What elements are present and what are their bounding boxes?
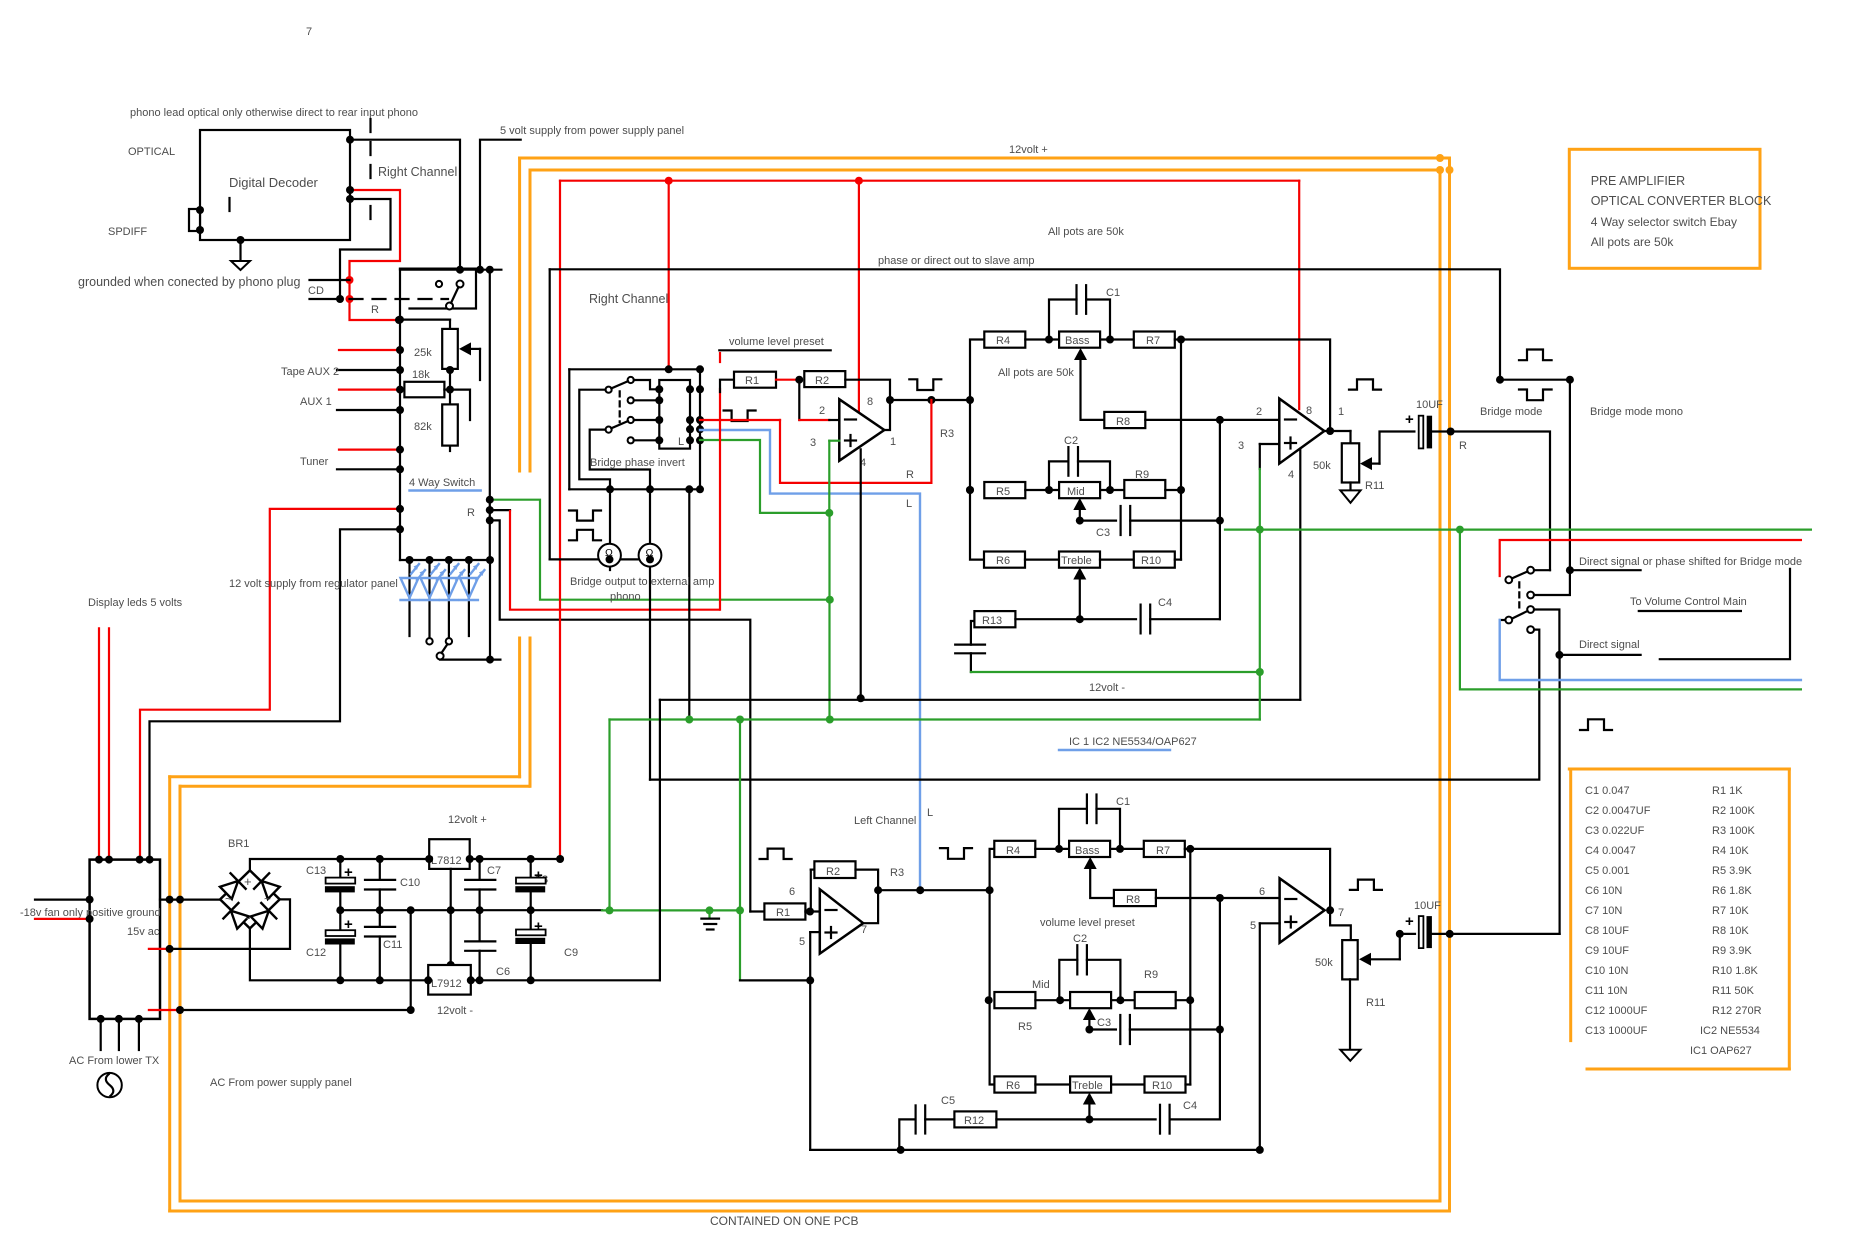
svg-text:15v ac: 15v ac (127, 926, 160, 938)
svg-text:5 volt supply from power suppl: 5 volt supply from power supply panel (500, 125, 684, 137)
svg-text:R11: R11 (1366, 997, 1385, 1009)
Treble wiper (left) (1088, 1098, 1090, 1119)
wire meter 2 drop (649, 489, 651, 779)
svg-text:R2 100K: R2 100K (1712, 805, 1755, 817)
R13 ground leg capacitor (971, 621, 975, 645)
svg-text:-: - (246, 910, 250, 925)
AC source symbol (97, 1073, 121, 1097)
contact F wire (634, 439, 660, 441)
gang dashed link (1518, 582, 1520, 609)
Mid wiper to C3 (1080, 504, 1116, 521)
tone input bus (970, 340, 984, 560)
svg-text:C8 10UF: C8 10UF (1585, 925, 1629, 937)
resistor R4 (984, 332, 1025, 348)
pot Bass (left) (1069, 841, 1110, 857)
svg-text:12volt -: 12volt - (437, 1005, 473, 1017)
svg-text:8: 8 (1306, 405, 1312, 417)
LED D4 (blue) (460, 564, 485, 600)
svg-text:50k: 50k (1315, 957, 1333, 969)
wire 15vac top to bridge (160, 898, 220, 900)
dashed CD link (350, 298, 449, 300)
pulse symbol P4 (909, 379, 941, 390)
svg-text:C4: C4 (1183, 1100, 1197, 1112)
contact B return wire (579, 390, 610, 490)
svg-text:4 Way selector switch Ebay: 4 Way selector switch Ebay (1591, 215, 1737, 229)
resistor R4 (left) (994, 841, 1035, 857)
led selector lever (442, 644, 448, 653)
svg-text:R10: R10 (1152, 1080, 1172, 1092)
svg-text:C13: C13 (306, 865, 326, 877)
svg-text:R8: R8 (1116, 416, 1130, 428)
resistor 25k pot (449, 320, 451, 329)
svg-text:C6: C6 (496, 966, 510, 978)
svg-text:R: R (906, 469, 914, 481)
pulse symbol P5 (1349, 379, 1381, 389)
svg-text:L: L (927, 807, 933, 819)
svg-text:Bridge mode mono: Bridge mode mono (1590, 406, 1683, 418)
wire black supply to switch (150, 529, 401, 858)
svg-text:PRE AMPLIFIER: PRE AMPLIFIER (1591, 174, 1685, 188)
pulse symbol P1 (569, 511, 601, 521)
regulator L7912 (428, 965, 471, 995)
bridge mode pulse P7 (1519, 390, 1552, 401)
svg-text:volume level preset: volume level preset (729, 336, 824, 348)
svg-text:C1: C1 (1116, 796, 1130, 808)
svg-text:C10 10N: C10 10N (1585, 965, 1628, 977)
svg-text:phono lead optical only other: phono lead optical only otherwise direct… (130, 107, 418, 119)
svg-text:R4 10K: R4 10K (1712, 845, 1749, 857)
capacitor C2 (1049, 461, 1068, 490)
bottom return wire (810, 1149, 1260, 1151)
bridge invert top wire (569, 368, 700, 370)
svg-text:OPTICAL: OPTICAL (128, 146, 175, 158)
svg-text:R1 1K: R1 1K (1712, 785, 1743, 797)
capacitor 10UF (right out) (1419, 416, 1424, 449)
resistor R6 (984, 552, 1025, 568)
wire route to volume control (1660, 569, 1790, 659)
svg-text:R: R (371, 304, 379, 316)
svg-text:C2 0.0047UF: C2 0.0047UF (1585, 805, 1651, 817)
capacitor C1 (1049, 300, 1077, 340)
svg-text:R3: R3 (890, 867, 904, 879)
svg-text:Bridge phase invert: Bridge phase invert (590, 457, 685, 469)
green feed to left channel rail (739, 720, 741, 981)
svg-text:L7812: L7812 (431, 855, 462, 867)
svg-text:C12 1000UF: C12 1000UF (1585, 1005, 1648, 1017)
red drop to op-amp U1 pin 8 (858, 181, 860, 414)
green right drop (1460, 530, 1801, 690)
svg-text:4 Way Switch: 4 Way Switch (409, 477, 475, 489)
svg-text:R8 10K: R8 10K (1712, 925, 1749, 937)
selector top feed wire (400, 269, 501, 271)
svg-text:10UF: 10UF (1416, 399, 1443, 411)
svg-text:OPTICAL CONVERTER BLOCK: OPTICAL CONVERTER BLOCK (1591, 194, 1772, 208)
wire U4 pin5 (1260, 922, 1280, 924)
Mid wiper to C3 (left) (1089, 1014, 1116, 1030)
svg-text:Bass: Bass (1075, 845, 1100, 857)
Bass wiper to R8 (left) (1090, 863, 1114, 898)
svg-text:All pots are 50k: All pots are 50k (1591, 235, 1675, 249)
resistor R12 (925, 1118, 954, 1120)
svg-text:Mid: Mid (1067, 486, 1085, 498)
svg-text:R: R (1459, 440, 1467, 452)
svg-text:grounded when conected by phon: grounded when conected by phono plug (78, 275, 300, 289)
bridge invert bottom wire (569, 488, 700, 490)
svg-text:All pots are 50k: All pots are 50k (1048, 226, 1124, 238)
svg-text:R3: R3 (940, 428, 954, 440)
pot R11 50k (left) (1342, 940, 1358, 979)
led selector switch circles (426, 638, 432, 644)
resistor R5 (left) (994, 992, 1035, 1008)
LED D2 (blue) (421, 564, 446, 600)
green lower rail to tone gnd (610, 718, 1260, 720)
top rail right of L7812 (470, 858, 560, 860)
svg-text:IC 1 IC2 NE5534/OAP627: IC 1 IC2 NE5534/OAP627 (1069, 736, 1197, 748)
25k wiper arrow (470, 348, 480, 350)
chassis ground symbol (708, 910, 710, 917)
wire 15vac bottom to bridge (149, 948, 170, 950)
pot Mid (1059, 482, 1100, 498)
meter M2 (639, 544, 662, 567)
resistor R10 (1134, 552, 1175, 568)
svg-text:R12: R12 (964, 1115, 984, 1127)
LED D3 (blue) (440, 564, 465, 600)
wire decoder black out (340, 199, 391, 299)
svg-text:8: 8 (867, 396, 873, 408)
svg-text:Right Channel: Right Channel (378, 165, 457, 179)
input wire red (CD row) (339, 349, 400, 351)
pot Treble (left) (1070, 1076, 1111, 1092)
selector R side bus (489, 270, 491, 560)
input wire Tape AUX 2 (337, 369, 400, 371)
svg-text:Right Channel: Right Channel (589, 292, 668, 306)
dashed gang link (619, 391, 621, 422)
outer orange border wire (520, 157, 1450, 160)
svg-text:R9: R9 (1135, 469, 1149, 481)
svg-text:6: 6 (1259, 886, 1265, 898)
svg-text:12volt +: 12volt + (1009, 144, 1048, 156)
svg-text:Bass: Bass (1065, 335, 1090, 347)
contact A wire (634, 380, 660, 389)
bridge invert red out (700, 419, 780, 421)
capacitor 10UF (left out) (1400, 933, 1415, 935)
switch contact circles (436, 281, 442, 287)
contact E return wire (590, 430, 650, 490)
green column to lower rail (828, 513, 830, 720)
PRE AMPLIFIER title box (1569, 149, 1760, 268)
wire bridge output long run (650, 630, 1539, 780)
svg-text:CONTAINED ON ONE PCB: CONTAINED ON ONE PCB (710, 1214, 858, 1228)
wire R output to selector (1451, 432, 1550, 571)
svg-text:R7 10K: R7 10K (1712, 905, 1749, 917)
svg-text:+: + (244, 874, 252, 889)
column R8-C3-C4 (left) (1219, 898, 1221, 1119)
connector CN1 box (90, 860, 160, 1019)
wire phase or direct out to slave amp (550, 269, 1570, 570)
svg-text:R4: R4 (1006, 845, 1020, 857)
svg-text:C6 10N: C6 10N (1585, 885, 1622, 897)
svg-text:Treble: Treble (1072, 1080, 1103, 1092)
regulator L7812 (429, 839, 470, 869)
green return to 12v- (971, 671, 1260, 673)
wire pin4 to 12v- (860, 449, 862, 698)
wire ground out (149, 1009, 180, 1011)
svg-text:C11 10N: C11 10N (1585, 985, 1628, 997)
svg-text:C2: C2 (1073, 933, 1087, 945)
wire rail stub to pin5 column (740, 979, 810, 981)
bridge mode pulse P6 (1519, 350, 1552, 361)
svg-text:C9 10UF: C9 10UF (1585, 945, 1629, 957)
selector bottom bus (400, 559, 491, 561)
connector bottom pins (97, 1015, 105, 1023)
capacitor C2 (left) (1059, 960, 1077, 1000)
wire R1-R2 red link (776, 379, 799, 381)
svg-text:Left Channel: Left Channel (854, 815, 916, 827)
green ground rail (602, 909, 740, 911)
wire BR1 + to top rail (250, 859, 429, 870)
12v- riser (659, 700, 661, 981)
pot Treble (1059, 552, 1100, 568)
resistor R1 (left) (750, 910, 764, 912)
selector pole 2 (1505, 617, 1512, 624)
wire R7 junction feedback (1181, 340, 1330, 432)
svg-text:AUX 1: AUX 1 (300, 396, 332, 408)
svg-text:C5 0.001: C5 0.001 (1585, 865, 1630, 877)
svg-text:5: 5 (799, 936, 805, 948)
capacitor C5 (899, 1119, 915, 1150)
svg-text:Treble: Treble (1061, 555, 1092, 567)
input wire Tuner (337, 468, 400, 470)
svg-text:7: 7 (861, 924, 867, 936)
wire red R out of switch (490, 509, 510, 511)
op-amp U4 (left channel out) (1280, 878, 1325, 943)
mid ground rail (340, 909, 602, 911)
svg-text:L: L (906, 498, 912, 510)
pulse symbol P8 (1580, 719, 1612, 730)
input wire red (Tuner row) (339, 449, 400, 451)
svg-text:C13 1000UF: C13 1000UF (1585, 1025, 1648, 1037)
svg-text:Tuner: Tuner (300, 456, 329, 468)
svg-text:L: L (678, 436, 684, 448)
svg-text:C5: C5 (941, 1095, 955, 1107)
svg-text:C3: C3 (1096, 527, 1110, 539)
svg-text:C3 0.022UF: C3 0.022UF (1585, 825, 1645, 837)
svg-text:AC From lower TX: AC From lower TX (69, 1055, 160, 1067)
Bass wiper to R8 (1081, 354, 1105, 420)
pulse symbol P11 (1350, 880, 1382, 890)
svg-text:7: 7 (1338, 907, 1344, 919)
wire U3 output (856, 870, 879, 924)
svg-text:1: 1 (1338, 406, 1344, 418)
Treble wiper (1079, 573, 1081, 619)
svg-text:SPDIFF: SPDIFF (108, 226, 147, 238)
bridge invert left edge (568, 369, 570, 489)
svg-text:R11: R11 (1365, 480, 1384, 492)
display led red feed wires (98, 628, 100, 859)
wire U2 output (1324, 430, 1350, 432)
svg-text:R1: R1 (776, 907, 790, 919)
wire meter 1 drop (609, 489, 611, 570)
resistor 82k (449, 390, 451, 405)
wire pole2 top contact to direct signal (1534, 610, 1559, 655)
svg-text:IC1 OAP627: IC1 OAP627 (1690, 1045, 1752, 1057)
pot R11 50k (right) (1342, 443, 1359, 482)
svg-text:2: 2 (1256, 406, 1262, 418)
svg-text:C11: C11 (383, 939, 402, 951)
svg-text:R10 1.8K: R10 1.8K (1712, 965, 1759, 977)
svg-text:C2: C2 (1064, 435, 1078, 447)
svg-text:R2: R2 (826, 866, 840, 878)
resistor R13 (974, 611, 1015, 627)
resistor R5 (984, 482, 1025, 498)
svg-text:R10: R10 (1141, 555, 1161, 567)
svg-text:R1: R1 (745, 375, 759, 387)
svg-text:R7: R7 (1146, 335, 1160, 347)
contact C wire (634, 399, 660, 401)
svg-text:2: 2 (819, 405, 825, 417)
ground symbol under decoder (239, 240, 241, 261)
contact D wire (634, 419, 660, 421)
svg-text:C1 0.047: C1 0.047 (1585, 785, 1630, 797)
digital decoder U-DD box (200, 130, 350, 240)
svg-text:6: 6 (789, 886, 795, 898)
svg-text:R13: R13 (982, 615, 1002, 627)
capacitor C4 (1139, 605, 1141, 634)
wire U3 pin5 (810, 931, 820, 933)
switch contacts (628, 377, 634, 383)
wire U4 output (1326, 906, 1334, 914)
svg-text:volume level preset: volume level preset (1040, 917, 1135, 929)
svg-text:10UF: 10UF (1414, 900, 1441, 912)
bridge invert connector box (659, 380, 690, 449)
bridge invert green out (700, 440, 829, 513)
wire R7 junction feedback (left) (1190, 849, 1330, 910)
right pin column (699, 369, 701, 489)
svg-text:R9 3.9K: R9 3.9K (1712, 945, 1752, 957)
wire red to 25k top (400, 319, 450, 321)
svg-text:CD: CD (308, 285, 324, 297)
svg-text:phono: phono (610, 591, 641, 603)
wire R8 to U2 pin2 (1145, 419, 1279, 421)
wire 12volt+ red rail (560, 180, 1299, 182)
wire U1 output (884, 400, 890, 430)
resistor R2 (left) (814, 861, 855, 878)
resistor R7 (1134, 332, 1175, 348)
wire red input (35, 918, 90, 920)
column R8-C3-C4 (1219, 420, 1221, 619)
svg-text:C12: C12 (306, 947, 326, 959)
wire 18k to stub (450, 390, 470, 420)
svg-text:R6 1.8K: R6 1.8K (1712, 885, 1752, 897)
CD input wires (310, 279, 350, 281)
wire 12v- rail (660, 699, 1300, 701)
resistor 18k (404, 382, 444, 398)
meter M1 (598, 544, 621, 567)
svg-text:12 volt supply from regulator: 12 volt supply from regulator panel (229, 578, 398, 590)
svg-text:R9: R9 (1144, 969, 1158, 981)
BR1 diodes (218, 872, 283, 931)
red drop to bridge invert (668, 181, 670, 370)
R11 wiper (left) (1370, 958, 1400, 960)
wire R2 left drop to pin2 (798, 380, 800, 420)
svg-text:3: 3 (810, 437, 816, 449)
wire green R out of switch (492, 500, 830, 600)
section bottom wire with meters (550, 558, 650, 560)
svg-text:C3: C3 (1097, 1017, 1111, 1029)
svg-text:82k: 82k (414, 421, 432, 433)
svg-text:Display leds 5 volts: Display leds 5 volts (88, 597, 183, 609)
red feed wire (1500, 540, 1801, 576)
pulse symbol P10 (940, 848, 972, 859)
input switch box (400, 269, 476, 309)
svg-text:C7 10N: C7 10N (1585, 905, 1622, 917)
svg-text:R6: R6 (996, 555, 1010, 567)
svg-text:All pots are 50k: All pots are 50k (998, 367, 1074, 379)
bridge invert blue out (700, 430, 920, 889)
svg-text:C4: C4 (1158, 597, 1172, 609)
svg-text:R2: R2 (815, 375, 829, 387)
right column R7-R10 (1180, 340, 1182, 560)
tone input bus (left) (990, 849, 995, 1085)
pot Mid (left) (1070, 992, 1111, 1008)
wire red feedback to bridge invert (780, 400, 931, 483)
pulse symbol P3 (724, 411, 756, 422)
svg-text:R5: R5 (1018, 1021, 1032, 1033)
wire led switch to bus (440, 658, 500, 660)
svg-text:Bridge mode: Bridge mode (1480, 406, 1542, 418)
svg-text:C4 0.0047: C4 0.0047 (1585, 845, 1636, 857)
svg-text:+: + (1405, 913, 1414, 930)
svg-text:L7912: L7912 (431, 978, 462, 990)
main selector bus (399, 269, 401, 560)
svg-text:R7: R7 (1156, 845, 1170, 857)
svg-text:Mid: Mid (1032, 979, 1050, 991)
capacitor C4 (left) (1159, 1105, 1161, 1134)
wire 12v supply red to switch (140, 509, 400, 858)
resistor R2 (804, 371, 845, 387)
svg-text:5: 5 (1250, 920, 1256, 932)
inner orange border wire (530, 169, 1440, 172)
resistor R10 (left) (1145, 1076, 1186, 1092)
wire BR1 - to bottom rail (250, 928, 660, 980)
svg-text:R4: R4 (996, 335, 1010, 347)
dashed phono divider (369, 119, 371, 182)
LED D1 (blue) (401, 564, 426, 600)
op-amp U1 (right channel) (839, 399, 884, 460)
svg-text:C9: C9 (564, 947, 578, 959)
wire green pin3 (829, 440, 839, 442)
svg-text:R12 270R: R12 270R (1712, 1005, 1762, 1017)
resistor R9 (left) (1135, 992, 1176, 1008)
led wires down (408, 560, 410, 636)
svg-text:R5 3.9K: R5 3.9K (1712, 865, 1752, 877)
component value list box (1569, 768, 1789, 771)
svg-text:AC From power supply panel: AC From power supply panel (210, 1077, 352, 1089)
svg-text:25k: 25k (414, 347, 432, 359)
svg-text:C1: C1 (1106, 287, 1120, 299)
svg-text:R8: R8 (1126, 894, 1140, 906)
svg-text:1: 1 (890, 436, 896, 448)
svg-text:Direct signal or phase shifted: Direct signal or phase shifted for Bridg… (1579, 556, 1802, 568)
orange junction dots top right (1436, 154, 1444, 162)
svg-text:18k: 18k (412, 369, 430, 381)
svg-text:IC2 NE5534: IC2 NE5534 (1700, 1025, 1760, 1037)
wire R2 right to output node (845, 380, 890, 400)
svg-text:R5: R5 (996, 486, 1010, 498)
switch levers (611, 381, 628, 388)
red feed column (719, 353, 721, 362)
resistor R9 (1124, 480, 1165, 498)
